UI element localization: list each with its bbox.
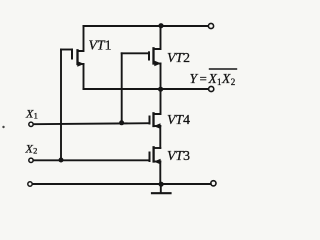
svg-text:VT2: VT2	[167, 50, 190, 65]
svg-text:=: =	[200, 71, 207, 86]
svg-text:X1X2: X1X2	[208, 71, 236, 87]
svg-text:X2: X2	[25, 141, 38, 155]
svg-text:Y: Y	[190, 71, 199, 86]
svg-text:VT4: VT4	[167, 112, 190, 127]
svg-text:X1: X1	[25, 106, 38, 120]
svg-text:VT1: VT1	[89, 38, 112, 53]
svg-text:VT3: VT3	[167, 148, 190, 163]
